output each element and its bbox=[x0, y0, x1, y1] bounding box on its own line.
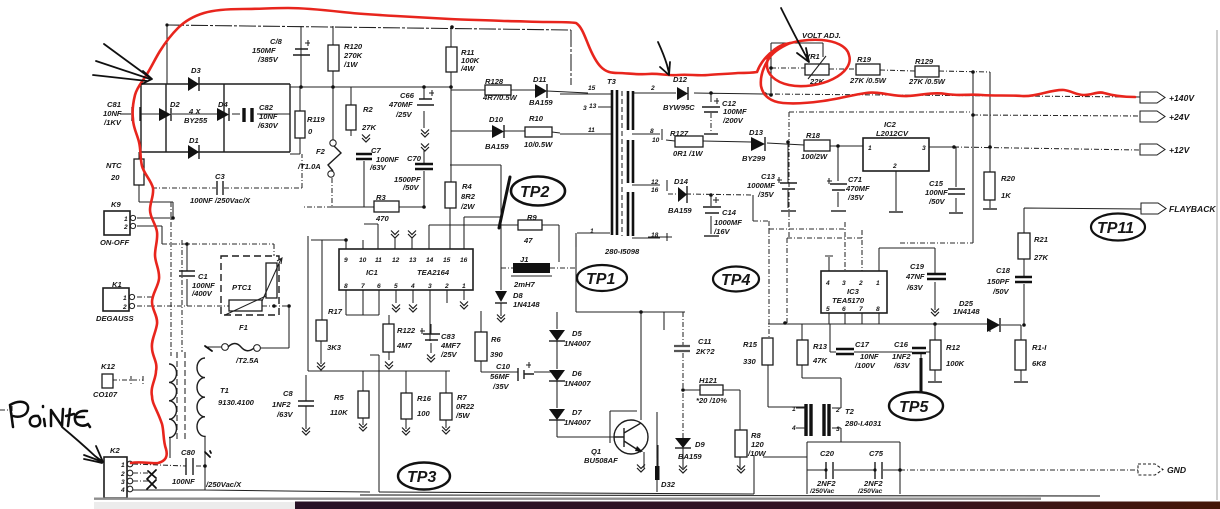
svg-text:8R2: 8R2 bbox=[461, 192, 476, 201]
svg-text:BY255: BY255 bbox=[184, 116, 208, 125]
connector K9 bbox=[104, 211, 130, 235]
svg-text:BA159: BA159 bbox=[485, 142, 509, 151]
svg-text:14: 14 bbox=[426, 257, 434, 264]
wire IC1 pins12 13 bbox=[395, 238, 412, 249]
diode D8 bbox=[495, 291, 507, 302]
wire C1 degauss top line bbox=[162, 244, 274, 256]
ground below R8 bbox=[737, 466, 745, 474]
svg-text:390: 390 bbox=[490, 350, 503, 359]
wire primary dashdot verticals bbox=[171, 202, 182, 356]
ground below R16 bbox=[402, 428, 410, 436]
bottom dark band bbox=[295, 502, 1220, 509]
wire D14 row bbox=[668, 194, 753, 195]
svg-text:C70: C70 bbox=[407, 154, 422, 163]
svg-text:470: 470 bbox=[375, 214, 389, 223]
svg-text:C/8: C/8 bbox=[270, 37, 283, 46]
wire R128 row bbox=[451, 90, 588, 93]
capacitor C81 bbox=[132, 107, 140, 121]
resistor R120 bbox=[328, 45, 339, 71]
ground C12 bbox=[704, 133, 718, 135]
svg-text:4: 4 bbox=[410, 283, 415, 290]
svg-text:ON-OFF: ON-OFF bbox=[100, 238, 129, 247]
svg-text:IC1: IC1 bbox=[366, 268, 378, 277]
wire top rail drops C/8 R120 bbox=[301, 26, 333, 87]
resistor R1-I bbox=[1015, 340, 1026, 370]
wire degauss bottom line bbox=[137, 297, 289, 306]
wire mid box verticals bbox=[658, 312, 664, 473]
svg-text:D4: D4 bbox=[218, 100, 228, 109]
resistor R9 bbox=[518, 220, 542, 230]
svg-text:R12: R12 bbox=[946, 343, 961, 352]
ground IC2 bbox=[889, 211, 903, 213]
svg-text:CO107: CO107 bbox=[93, 390, 118, 399]
ground C19 bbox=[931, 309, 939, 317]
wire left vertical from top rail bbox=[166, 25, 168, 84]
svg-text:27K /0.5W: 27K /0.5W bbox=[908, 77, 946, 86]
wire IC2 gnd bbox=[895, 171, 897, 211]
ground below R7 bbox=[442, 427, 450, 435]
wire IC1 bottom pins bbox=[346, 290, 464, 341]
resistor R5 bbox=[358, 391, 369, 418]
svg-text:D11: D11 bbox=[533, 75, 546, 84]
wire C13 hang bbox=[787, 142, 789, 208]
svg-text:/5W: /5W bbox=[455, 411, 470, 420]
wire C66 hang bbox=[423, 87, 425, 128]
wire R4 column bbox=[450, 87, 501, 268]
diode D10 bbox=[492, 125, 504, 138]
svg-text:C17: C17 bbox=[855, 340, 870, 349]
resistor R15 bbox=[762, 338, 773, 365]
svg-text:10NF: 10NF bbox=[259, 112, 278, 121]
wire main y87 rail bbox=[290, 86, 451, 88]
svg-text:6K8: 6K8 bbox=[1032, 359, 1047, 368]
svg-text:C20: C20 bbox=[820, 449, 835, 458]
svg-text:12: 12 bbox=[392, 257, 400, 264]
svg-text:R4: R4 bbox=[462, 182, 472, 191]
testpoint TP11 bbox=[1091, 214, 1145, 241]
svg-text:3: 3 bbox=[922, 145, 926, 152]
connector K1 bbox=[103, 288, 129, 311]
svg-text:NTC: NTC bbox=[106, 161, 122, 170]
svg-text:1000MF: 1000MF bbox=[714, 218, 742, 227]
wire C14 out corner bbox=[752, 195, 754, 221]
capacitor C8 bbox=[298, 401, 314, 406]
svg-text:R21: R21 bbox=[1034, 235, 1048, 244]
svg-text:1NF2: 1NF2 bbox=[272, 400, 291, 409]
resistor R16 bbox=[401, 393, 412, 419]
svg-text:280-I.4031: 280-I.4031 bbox=[844, 419, 881, 428]
svg-text:BA159: BA159 bbox=[668, 206, 692, 215]
svg-text:K2: K2 bbox=[110, 446, 120, 455]
svg-text:2NF2: 2NF2 bbox=[863, 479, 883, 488]
svg-text:TP1: TP1 bbox=[586, 271, 615, 288]
wire GND rail bbox=[900, 469, 1138, 471]
ground C15 bbox=[949, 212, 963, 214]
svg-text:C16: C16 bbox=[894, 340, 909, 349]
wire 24V rail bbox=[973, 115, 1140, 116]
ground C14 bbox=[704, 235, 719, 237]
resistor H121 bbox=[700, 385, 723, 395]
wire C70 column bbox=[423, 150, 425, 207]
wire IC2 box outline bbox=[789, 112, 973, 243]
svg-text:R8: R8 bbox=[751, 431, 761, 440]
svg-text:/63V: /63V bbox=[369, 163, 387, 172]
svg-text:C19: C19 bbox=[910, 262, 925, 271]
wire Q1 bracket bbox=[610, 411, 657, 458]
wire R15 R13 feeds bbox=[802, 324, 1021, 340]
svg-text:/50V: /50V bbox=[928, 197, 946, 206]
ground R12 bbox=[928, 381, 942, 383]
wire IC1 pin14 R9 row bbox=[429, 225, 559, 262]
testpoint TP5 bbox=[889, 392, 943, 420]
svg-text:5: 5 bbox=[394, 283, 398, 290]
svg-text:PTC1: PTC1 bbox=[232, 283, 251, 292]
svg-text:D9: D9 bbox=[695, 440, 705, 449]
svg-text:*20 /10%: *20 /10% bbox=[696, 396, 727, 405]
svg-text:C66: C66 bbox=[400, 91, 415, 100]
svg-text:27K: 27K bbox=[361, 123, 376, 132]
svg-text:D32: D32 bbox=[661, 480, 676, 489]
svg-text:0R1 /1W: 0R1 /1W bbox=[673, 149, 703, 158]
svg-text:11: 11 bbox=[375, 257, 382, 264]
transformer T3 core bbox=[621, 91, 623, 236]
capacitor C20 bbox=[826, 462, 833, 479]
svg-text:1: 1 bbox=[121, 462, 125, 469]
wire bridge mid row bbox=[141, 113, 290, 115]
wire C15 hang bbox=[955, 147, 957, 212]
svg-text:8: 8 bbox=[876, 306, 880, 313]
wire R11 column bbox=[450, 26, 452, 87]
svg-text:1N4148: 1N4148 bbox=[953, 307, 980, 316]
wire D9 gnd lead bbox=[682, 448, 684, 468]
handwriting PoiNtE bbox=[10, 402, 90, 427]
wire K2 pin stubs bbox=[133, 473, 148, 481]
wire C81 lead bbox=[120, 113, 131, 115]
svg-text:C1: C1 bbox=[198, 272, 208, 281]
wire C80 row bbox=[133, 464, 205, 466]
chevron above C70 bbox=[421, 144, 429, 152]
wire R20 hang bbox=[989, 147, 991, 208]
fuse F2 bbox=[330, 140, 336, 146]
wire TP3 big box bbox=[308, 236, 754, 494]
svg-text:10NF: 10NF bbox=[103, 109, 122, 118]
svg-text:4: 4 bbox=[120, 487, 125, 494]
svg-text:D3: D3 bbox=[191, 66, 201, 75]
svg-text:7: 7 bbox=[361, 283, 365, 290]
wire NTC column bbox=[139, 152, 173, 219]
wire C14 hang bbox=[710, 195, 712, 234]
svg-text:K1: K1 bbox=[112, 280, 122, 289]
IC U1 TEA2164 box bbox=[339, 249, 473, 290]
resistor R17 bbox=[316, 320, 327, 341]
svg-text:R17: R17 bbox=[328, 307, 343, 316]
svg-text:18: 18 bbox=[651, 232, 659, 239]
ground R1-I bbox=[1014, 381, 1028, 383]
svg-text:/35V: /35V bbox=[847, 193, 865, 202]
transistor Q1 bbox=[614, 420, 648, 454]
capacitor C80 bbox=[186, 458, 193, 475]
wire F2 lower dash bbox=[302, 178, 332, 207]
capacitor C71 electrolytic bbox=[830, 184, 847, 190]
svg-text:3: 3 bbox=[121, 479, 125, 486]
resistor R119 bbox=[295, 111, 305, 138]
svg-text:BYW95C: BYW95C bbox=[663, 103, 695, 112]
bottom grey shadow line bbox=[94, 498, 1041, 500]
svg-text:1N4007: 1N4007 bbox=[564, 339, 591, 348]
wire R122 C83 feeds bbox=[389, 315, 431, 360]
svg-text:T2: T2 bbox=[845, 407, 855, 416]
svg-text:R15: R15 bbox=[743, 340, 758, 349]
svg-text:R119: R119 bbox=[307, 115, 325, 124]
diode D32 bbox=[655, 466, 660, 480]
resistor R128 bbox=[485, 85, 511, 95]
svg-text:2NF2: 2NF2 bbox=[816, 479, 836, 488]
wire VR1 bracket bbox=[771, 43, 823, 95]
svg-text:/250Vac/X: /250Vac/X bbox=[205, 480, 242, 489]
resistor R12 bbox=[930, 340, 941, 370]
svg-text:R129: R129 bbox=[915, 57, 934, 66]
svg-text:2: 2 bbox=[650, 85, 655, 92]
wire right border bbox=[1216, 30, 1218, 500]
svg-text:3: 3 bbox=[428, 283, 432, 290]
wire C17 C16 row bbox=[830, 324, 930, 360]
svg-text:1: 1 bbox=[876, 280, 880, 287]
resistor R13 bbox=[797, 340, 808, 365]
svg-text:/T2.5A: /T2.5A bbox=[235, 356, 259, 365]
svg-text:100NF: 100NF bbox=[172, 477, 195, 486]
svg-text:BA159: BA159 bbox=[678, 452, 702, 461]
svg-text:56MF: 56MF bbox=[490, 372, 510, 381]
svg-text:J1: J1 bbox=[520, 255, 528, 264]
svg-text:D7: D7 bbox=[572, 408, 582, 417]
svg-text:R10: R10 bbox=[529, 114, 544, 123]
svg-text:9130.4100: 9130.4100 bbox=[218, 398, 255, 407]
potentiometer VR1 bbox=[805, 64, 829, 75]
diode D7 bbox=[549, 409, 565, 420]
svg-text:4MF7: 4MF7 bbox=[440, 341, 461, 350]
wire top primary rail bbox=[167, 25, 571, 85]
svg-text:/385V: /385V bbox=[257, 55, 279, 64]
resistor R21 bbox=[1018, 233, 1030, 259]
svg-text:2: 2 bbox=[122, 304, 127, 311]
wire C19 hang bbox=[879, 248, 935, 310]
black pen X marks K2 bbox=[147, 470, 156, 489]
svg-text:1N4148: 1N4148 bbox=[513, 300, 540, 309]
svg-text:C10: C10 bbox=[496, 362, 511, 371]
svg-text:7: 7 bbox=[859, 306, 863, 313]
svg-text:H121: H121 bbox=[699, 376, 717, 385]
ground below Q1 bbox=[637, 465, 645, 473]
svg-text:110K: 110K bbox=[330, 408, 348, 417]
svg-text:2: 2 bbox=[444, 283, 449, 290]
wire IC1 pin10 bbox=[362, 240, 364, 249]
diode D13 bbox=[751, 137, 765, 151]
resistor NTC bbox=[134, 159, 144, 185]
PTC1 var resistor bbox=[266, 263, 277, 298]
wire IC1 pin16 bbox=[464, 217, 501, 249]
svg-text:11: 11 bbox=[588, 127, 595, 134]
svg-text:10NF: 10NF bbox=[860, 352, 879, 361]
diode D14 bbox=[678, 187, 687, 202]
capacitor C83 electrolytic bbox=[423, 334, 440, 340]
svg-text:TP11: TP11 bbox=[1097, 220, 1134, 237]
svg-text:TP2: TP2 bbox=[520, 184, 549, 201]
svg-text:TEA5170: TEA5170 bbox=[832, 296, 865, 305]
svg-text:150MF: 150MF bbox=[252, 46, 276, 55]
ground below R2 bbox=[362, 135, 370, 143]
chevrons below pins5 4 bbox=[392, 305, 400, 313]
black pen arrow at VR1 bbox=[781, 8, 809, 62]
svg-text:/250Vac: /250Vac bbox=[809, 488, 835, 495]
svg-text:10/0.5W: 10/0.5W bbox=[524, 140, 553, 149]
wire T2 right leads bbox=[832, 428, 841, 442]
svg-text:/250Vac: /250Vac bbox=[857, 488, 883, 495]
diode D3 bbox=[188, 77, 199, 91]
svg-text:100NF /250Vac/X: 100NF /250Vac/X bbox=[190, 196, 251, 205]
wire Q1 collector bbox=[640, 312, 642, 420]
output arrow +24V bbox=[1140, 111, 1165, 122]
svg-text:R5: R5 bbox=[334, 393, 344, 402]
diode D9 bbox=[675, 438, 691, 448]
svg-text:9: 9 bbox=[344, 257, 348, 264]
wire D9 column bbox=[682, 312, 684, 438]
wire to IC3 pins bbox=[753, 221, 862, 338]
svg-text:2: 2 bbox=[835, 407, 840, 414]
svg-text:16: 16 bbox=[460, 257, 468, 264]
svg-text:/35V: /35V bbox=[492, 382, 510, 391]
svg-text:Q1: Q1 bbox=[591, 447, 601, 456]
wire C20 C75 row bbox=[807, 469, 900, 471]
svg-text:/63V: /63V bbox=[906, 283, 924, 292]
wire R2 column bbox=[350, 87, 352, 136]
svg-text:C83: C83 bbox=[441, 332, 456, 341]
svg-text:10: 10 bbox=[359, 257, 367, 264]
PTC1 dashed box bbox=[221, 256, 279, 315]
resistor R10 bbox=[525, 127, 552, 137]
ground C13 bbox=[781, 210, 796, 212]
ground below C83 bbox=[427, 355, 435, 363]
wire F2 column bbox=[332, 87, 334, 140]
svg-text:L2012CV: L2012CV bbox=[876, 129, 909, 138]
svg-text:TP3: TP3 bbox=[407, 469, 436, 486]
black pen arrow at T3 bbox=[658, 42, 670, 75]
svg-text:R13: R13 bbox=[813, 342, 828, 351]
capacitor C3 bbox=[217, 181, 223, 195]
svg-text:R19: R19 bbox=[857, 55, 872, 64]
resistor R20 bbox=[984, 172, 995, 200]
svg-text:/16V: /16V bbox=[713, 227, 731, 236]
chevrons above pins12 13 bbox=[391, 231, 399, 239]
IC U2 L2012CV box bbox=[863, 138, 929, 171]
svg-text:R7: R7 bbox=[457, 393, 467, 402]
label IC1 top pins bbox=[344, 257, 468, 264]
svg-text:4: 4 bbox=[791, 425, 796, 432]
diode D12 bbox=[677, 87, 688, 100]
wire D8 column bbox=[500, 268, 502, 316]
resistor R122 bbox=[383, 324, 394, 352]
svg-text:2mH7: 2mH7 bbox=[513, 280, 535, 289]
resistor R11 bbox=[446, 47, 457, 72]
svg-text:T3: T3 bbox=[607, 77, 617, 86]
wire 140V rail bbox=[765, 94, 1140, 97]
svg-text:100/2W: 100/2W bbox=[801, 152, 828, 161]
svg-text:K12: K12 bbox=[101, 362, 116, 371]
wire flayback row bbox=[1024, 208, 1141, 233]
svg-text:/2W: /2W bbox=[460, 202, 475, 211]
svg-text:270K: 270K bbox=[343, 51, 363, 60]
output arrow +12V bbox=[1140, 144, 1165, 155]
wire K9 pin leads bbox=[137, 218, 173, 244]
wire T3 pin18 bbox=[632, 233, 667, 241]
svg-text:C81: C81 bbox=[107, 100, 121, 109]
svg-text:GND: GND bbox=[1167, 465, 1186, 475]
resistor R3 bbox=[374, 201, 399, 212]
wire H121 branch bbox=[683, 390, 740, 468]
ground C71 bbox=[831, 210, 846, 212]
svg-text:R16: R16 bbox=[417, 394, 432, 403]
svg-text:47NF: 47NF bbox=[905, 272, 925, 281]
svg-text:27K /0.5W: 27K /0.5W bbox=[849, 76, 887, 85]
svg-text:D6: D6 bbox=[572, 369, 582, 378]
black pen tick near C80 bbox=[205, 451, 211, 457]
capacitor C14 electrolytic bbox=[703, 207, 721, 213]
output arrow +140V bbox=[1140, 92, 1165, 103]
svg-text:R120: R120 bbox=[344, 42, 363, 51]
svg-text:15: 15 bbox=[588, 85, 596, 92]
wire T3 pin12 16 bbox=[632, 180, 667, 191]
svg-text:0R22: 0R22 bbox=[456, 402, 475, 411]
capacitor C10 electrolytic bbox=[518, 368, 534, 381]
capacitor C18 bbox=[1015, 277, 1032, 282]
svg-text:D2: D2 bbox=[170, 100, 180, 109]
svg-text:1K: 1K bbox=[1001, 191, 1011, 200]
svg-text:100NF: 100NF bbox=[925, 188, 948, 197]
label IC1 bottom pins bbox=[344, 283, 466, 290]
svg-text:R127: R127 bbox=[670, 129, 689, 138]
svg-text:/630V: /630V bbox=[257, 121, 279, 130]
wire K12 stub bbox=[112, 376, 143, 384]
svg-text:TP4: TP4 bbox=[721, 272, 750, 289]
wire C3 dashed row bbox=[152, 154, 302, 188]
svg-text:3K3: 3K3 bbox=[327, 343, 342, 352]
resistor R7 bbox=[440, 393, 452, 420]
svg-text:K9: K9 bbox=[111, 200, 121, 209]
label IC3 bottom pins bbox=[826, 306, 880, 313]
testpoint TP2 bbox=[511, 177, 565, 206]
testpoint TP3 bbox=[398, 463, 450, 490]
ground below C8 bbox=[302, 428, 310, 436]
chevron below pin2 bbox=[460, 302, 468, 310]
svg-text:6: 6 bbox=[842, 306, 846, 313]
svg-text:C11: C11 bbox=[698, 337, 711, 346]
svg-text:280-I5098: 280-I5098 bbox=[604, 247, 640, 256]
svg-text:470MF: 470MF bbox=[388, 100, 413, 109]
svg-text:1N4007: 1N4007 bbox=[564, 418, 591, 427]
svg-text:D14: D14 bbox=[674, 177, 689, 186]
svg-text:C7: C7 bbox=[371, 146, 381, 155]
wire IC1 pin11 bbox=[364, 224, 378, 249]
svg-text:47K: 47K bbox=[812, 356, 827, 365]
svg-text:16: 16 bbox=[651, 187, 659, 194]
svg-text:D10: D10 bbox=[489, 115, 504, 124]
svg-text:C3: C3 bbox=[215, 172, 225, 181]
diode D5 bbox=[549, 330, 565, 341]
PTC1 resistor bbox=[229, 300, 262, 311]
diode D25 bbox=[987, 318, 1000, 332]
svg-text:120: 120 bbox=[751, 440, 764, 449]
svg-text:BU508AF: BU508AF bbox=[584, 456, 618, 465]
svg-text:/25V: /25V bbox=[395, 110, 413, 119]
